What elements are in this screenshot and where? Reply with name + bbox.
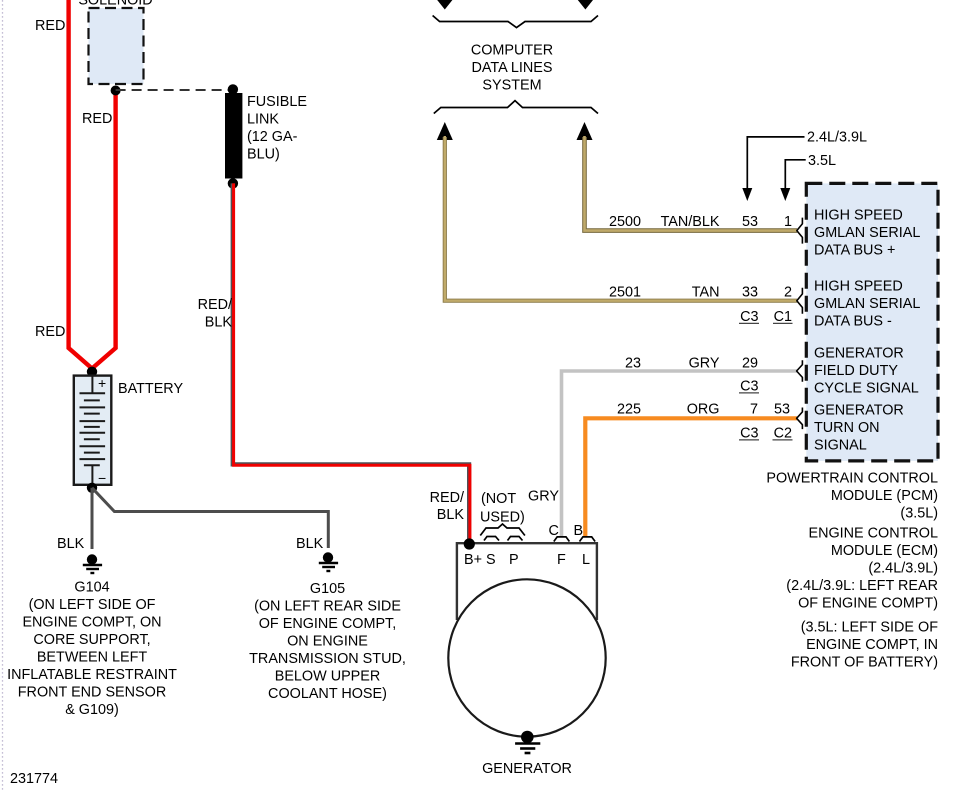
PCM pin brace at wire 23 bbox=[797, 360, 803, 382]
arrow up (wire 2501) bbox=[437, 122, 453, 140]
svg-text:FUSIBLE: FUSIBLE bbox=[247, 94, 307, 110]
svg-text:2500: 2500 bbox=[609, 214, 641, 230]
wire BLK battery to G105 bbox=[92, 488, 328, 548]
node junction at fusible link top bbox=[228, 84, 238, 94]
svg-text:BELOW UPPER: BELOW UPPER bbox=[275, 669, 381, 685]
svg-text:BLK: BLK bbox=[57, 536, 85, 552]
generator circle bbox=[448, 579, 605, 736]
arrow down (computer data lines, right) bbox=[577, 0, 594, 10]
svg-text:(2.4L/3.9L: LEFT REAR: (2.4L/3.9L: LEFT REAR bbox=[786, 578, 938, 594]
svg-text:BLU): BLU) bbox=[247, 147, 280, 163]
wire dashed from solenoid to fusible link bbox=[116, 89, 233, 91]
svg-text:FRONT END SENSOR: FRONT END SENSOR bbox=[18, 685, 166, 701]
wire RED/BLK from fusible link to generator B+ (black stripe) bbox=[233, 183, 469, 543]
svg-text:MODULE (ECM): MODULE (ECM) bbox=[831, 543, 938, 559]
wire 23 GRY from PCM to generator F bbox=[562, 371, 798, 536]
svg-text:BLK: BLK bbox=[437, 507, 465, 523]
svg-text:GMLAN SERIAL: GMLAN SERIAL bbox=[814, 296, 920, 312]
svg-text:(2.4L/3.9L): (2.4L/3.9L) bbox=[868, 561, 938, 577]
svg-text:RED/: RED/ bbox=[430, 490, 464, 506]
ground (generator) bbox=[515, 744, 540, 754]
label G105 block bbox=[249, 581, 406, 702]
svg-text:RED: RED bbox=[35, 324, 65, 340]
svg-text:CORE SUPPORT,: CORE SUPPORT, bbox=[33, 632, 150, 648]
wire 2500 TAN/BLK core bbox=[585, 136, 798, 231]
svg-text:RED: RED bbox=[35, 18, 65, 34]
svg-text:53: 53 bbox=[774, 402, 790, 418]
svg-text:DATA BUS -: DATA BUS - bbox=[814, 314, 892, 330]
node junction at generator ground bbox=[521, 731, 534, 744]
svg-text:2501: 2501 bbox=[609, 285, 641, 301]
svg-text:RED: RED bbox=[82, 111, 112, 127]
label G104 block bbox=[7, 580, 177, 719]
svg-text:COOLANT HOSE): COOLANT HOSE) bbox=[268, 686, 387, 702]
svg-text:OF ENGINE COMPT): OF ENGINE COMPT) bbox=[798, 596, 938, 612]
svg-text:RED/: RED/ bbox=[198, 297, 232, 313]
svg-text:(ON LEFT REAR SIDE: (ON LEFT REAR SIDE bbox=[254, 599, 401, 615]
PCM pin text GENERATOR TURN ON SIGNAL bbox=[814, 403, 904, 454]
svg-text:231774: 231774 bbox=[10, 771, 58, 787]
svg-text:TURN ON: TURN ON bbox=[814, 420, 880, 436]
svg-text:OF ENGINE COMPT,: OF ENGINE COMPT, bbox=[259, 616, 397, 632]
svg-text:3.5L: 3.5L bbox=[808, 153, 836, 169]
svg-text:FRONT OF BATTERY): FRONT OF BATTERY) bbox=[791, 655, 938, 671]
svg-text:C3: C3 bbox=[740, 309, 758, 325]
svg-text:GRY: GRY bbox=[689, 356, 720, 372]
svg-text:LINK: LINK bbox=[247, 112, 279, 128]
svg-text:MODULE (PCM): MODULE (PCM) bbox=[831, 488, 938, 504]
svg-text:BLK: BLK bbox=[296, 536, 324, 552]
svg-text:COMPUTER: COMPUTER bbox=[471, 43, 553, 59]
svg-text:(12 GA-: (12 GA- bbox=[247, 129, 298, 145]
svg-text:C3: C3 bbox=[740, 379, 758, 395]
svg-text:F: F bbox=[557, 552, 566, 568]
svg-text:BETWEEN LEFT: BETWEEN LEFT bbox=[37, 650, 148, 666]
svg-text:(ON LEFT SIDE OF: (ON LEFT SIDE OF bbox=[29, 597, 156, 613]
brace lower (cusp up) bbox=[434, 101, 598, 114]
svg-text:DATA LINES: DATA LINES bbox=[471, 60, 552, 76]
PCM pin text HIGH SPEED GMLAN SERIAL DATA BUS + bbox=[814, 208, 920, 259]
wire BLK battery to G104 bbox=[91, 488, 94, 549]
ground G105 bbox=[319, 552, 338, 571]
node junction at fusible link bottom bbox=[228, 178, 238, 188]
svg-text:225: 225 bbox=[617, 402, 641, 418]
svg-text:(3.5L: LEFT SIDE OF: (3.5L: LEFT SIDE OF bbox=[801, 620, 938, 636]
svg-text:GENERATOR: GENERATOR bbox=[814, 346, 904, 362]
PCM box (dashed, blue fill) bbox=[806, 183, 938, 461]
label COMPUTER DATA LINES SYSTEM bbox=[471, 43, 553, 94]
svg-text:GMLAN SERIAL: GMLAN SERIAL bbox=[814, 225, 920, 241]
wire RED left (to battery +) bbox=[69, 0, 92, 369]
svg-text:BATTERY: BATTERY bbox=[118, 381, 183, 397]
battery BATTERY bbox=[74, 375, 112, 486]
svg-text:ORG: ORG bbox=[687, 402, 720, 418]
pointer 3.5L bbox=[785, 160, 805, 189]
svg-text:TAN/BLK: TAN/BLK bbox=[661, 214, 720, 230]
terminal arc B (L pin) bbox=[580, 537, 596, 542]
svg-text:GENERATOR: GENERATOR bbox=[482, 761, 572, 777]
svg-text:(NOT: (NOT bbox=[481, 491, 516, 507]
svg-text:ENGINE COMPT, ON: ENGINE COMPT, ON bbox=[22, 615, 161, 631]
svg-text:B+ S: B+ S bbox=[464, 552, 496, 568]
svg-text:HIGH SPEED: HIGH SPEED bbox=[814, 279, 903, 295]
svg-text:INFLATABLE RESTRAINT: INFLATABLE RESTRAINT bbox=[7, 667, 177, 683]
page left border dotted artifact bbox=[2, 0, 4, 791]
svg-text:53: 53 bbox=[742, 214, 758, 230]
svg-text:ON ENGINE: ON ENGINE bbox=[287, 634, 368, 650]
PCM pin brace at wire 2501 bbox=[797, 288, 803, 314]
svg-text:1: 1 bbox=[784, 214, 792, 230]
svg-text:C1: C1 bbox=[774, 309, 792, 325]
not-used terminal arc S bbox=[484, 537, 499, 541]
svg-text:GENERATOR: GENERATOR bbox=[814, 403, 904, 419]
svg-text:DATA BUS +: DATA BUS + bbox=[814, 243, 895, 259]
pointer 2.4L/3.9L bbox=[747, 137, 804, 189]
svg-text:BLK: BLK bbox=[205, 315, 233, 331]
node junction at battery - bbox=[87, 483, 97, 493]
svg-text:L: L bbox=[582, 552, 590, 568]
node junction at generator B+ bbox=[464, 538, 475, 549]
svg-text:SOLENOID: SOLENOID bbox=[78, 0, 152, 9]
PCM pin text HIGH SPEED GMLAN SERIAL DATA BUS - bbox=[814, 279, 920, 330]
fusible link body bbox=[225, 93, 242, 179]
svg-text:C3: C3 bbox=[740, 426, 758, 442]
PCM pin brace at wire 225 bbox=[797, 408, 803, 430]
svg-text:GRY: GRY bbox=[528, 489, 559, 505]
arrow down (computer data lines, left) bbox=[436, 0, 453, 10]
svg-text:(3.5L): (3.5L) bbox=[900, 506, 938, 522]
wire 2500 TAN/BLK outline bbox=[585, 137, 798, 231]
svg-text:SIGNAL: SIGNAL bbox=[814, 438, 867, 454]
svg-text:33: 33 bbox=[742, 285, 758, 301]
generator box bbox=[457, 543, 597, 620]
svg-text:& G109): & G109) bbox=[65, 702, 119, 718]
PCM pin text GENERATOR FIELD DUTY CYCLE SIGNAL bbox=[814, 346, 919, 397]
svg-text:B: B bbox=[574, 523, 584, 539]
brace upper (cusp down) bbox=[433, 16, 598, 28]
svg-text:CYCLE SIGNAL: CYCLE SIGNAL bbox=[814, 381, 919, 397]
svg-text:G104: G104 bbox=[74, 580, 109, 596]
label POWERTRAIN CONTROL MODULE (PCM) block bbox=[766, 471, 938, 671]
svg-text:−: − bbox=[98, 470, 106, 486]
svg-text:23: 23 bbox=[625, 356, 641, 372]
svg-text:2: 2 bbox=[784, 285, 792, 301]
PCM pin brace at wire 2500 bbox=[797, 218, 803, 244]
svg-text:ENGINE COMPT, IN: ENGINE COMPT, IN bbox=[806, 637, 938, 653]
not-used brace over S and P bbox=[480, 524, 525, 536]
terminal arc C (F pin) bbox=[554, 537, 570, 542]
not-used terminal arc P bbox=[508, 537, 523, 541]
arrow up (wire 2500) bbox=[577, 122, 593, 140]
solenoid box (dashed, blue fill) bbox=[89, 8, 144, 84]
svg-text:POWERTRAIN CONTROL: POWERTRAIN CONTROL bbox=[766, 471, 938, 487]
node junction at solenoid bottom bbox=[111, 86, 121, 96]
wire 225 ORG from PCM to generator L bbox=[585, 418, 797, 536]
svg-text:G105: G105 bbox=[310, 581, 345, 597]
svg-text:P: P bbox=[509, 552, 519, 568]
svg-text:ENGINE CONTROL: ENGINE CONTROL bbox=[808, 526, 938, 542]
svg-text:HIGH SPEED: HIGH SPEED bbox=[814, 208, 903, 224]
ground G104 bbox=[83, 554, 102, 573]
wire 2501 TAN outline bbox=[445, 137, 797, 301]
svg-text:TRANSMISSION STUD,: TRANSMISSION STUD, bbox=[249, 651, 406, 667]
wire RED from solenoid to battery + bbox=[92, 88, 116, 369]
wire 2501 TAN core bbox=[445, 136, 797, 301]
svg-text:TAN: TAN bbox=[692, 285, 720, 301]
node junction at battery + bbox=[87, 367, 97, 377]
svg-text:2.4L/3.9L: 2.4L/3.9L bbox=[807, 130, 867, 146]
svg-text:FIELD DUTY: FIELD DUTY bbox=[814, 363, 898, 379]
svg-text:+: + bbox=[98, 375, 106, 391]
wire RED/BLK red core bbox=[234, 183, 470, 543]
svg-text:SYSTEM: SYSTEM bbox=[482, 78, 541, 94]
svg-text:7: 7 bbox=[750, 402, 758, 418]
svg-text:C2: C2 bbox=[774, 426, 792, 442]
svg-text:29: 29 bbox=[742, 356, 758, 372]
